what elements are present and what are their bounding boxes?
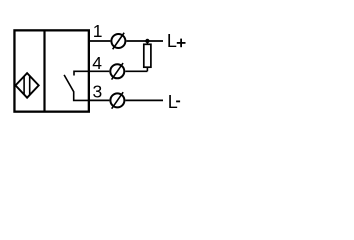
svg-text:1: 1: [93, 21, 103, 41]
svg-text:3: 3: [93, 81, 103, 101]
svg-text:L: L: [167, 31, 177, 51]
svg-text:4: 4: [92, 53, 102, 73]
